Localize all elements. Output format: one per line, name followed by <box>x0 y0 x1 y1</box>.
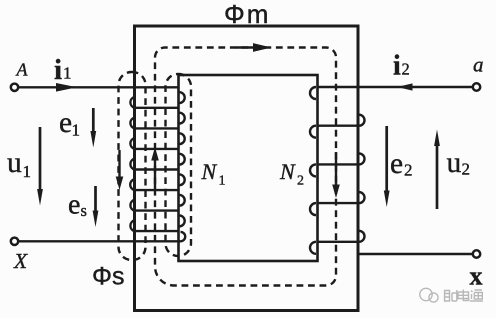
svg-text:2: 2 <box>404 161 413 180</box>
svg-text:u: u <box>447 147 462 179</box>
svg-text:N: N <box>279 159 296 184</box>
svg-text:i: i <box>393 51 401 82</box>
svg-text:Φs: Φs <box>92 263 124 291</box>
svg-text:A: A <box>16 60 29 80</box>
svg-text:Φm: Φm <box>224 0 270 29</box>
svg-text:e: e <box>59 107 72 139</box>
svg-text:1: 1 <box>63 64 72 83</box>
svg-text:2: 2 <box>462 160 471 179</box>
svg-text:e: e <box>68 190 80 221</box>
svg-text:1: 1 <box>23 162 32 181</box>
svg-text:a: a <box>473 52 484 76</box>
svg-text:1: 1 <box>72 121 81 140</box>
svg-text:u: u <box>7 147 22 179</box>
svg-text:X: X <box>13 249 28 273</box>
svg-text:2: 2 <box>297 174 304 189</box>
svg-text:2: 2 <box>402 60 410 79</box>
svg-text:N: N <box>201 159 218 184</box>
svg-text:1: 1 <box>219 174 226 189</box>
svg-text:s: s <box>81 201 87 220</box>
svg-text:i: i <box>54 54 62 86</box>
svg-text:x: x <box>470 262 483 291</box>
svg-text:e: e <box>390 148 403 180</box>
